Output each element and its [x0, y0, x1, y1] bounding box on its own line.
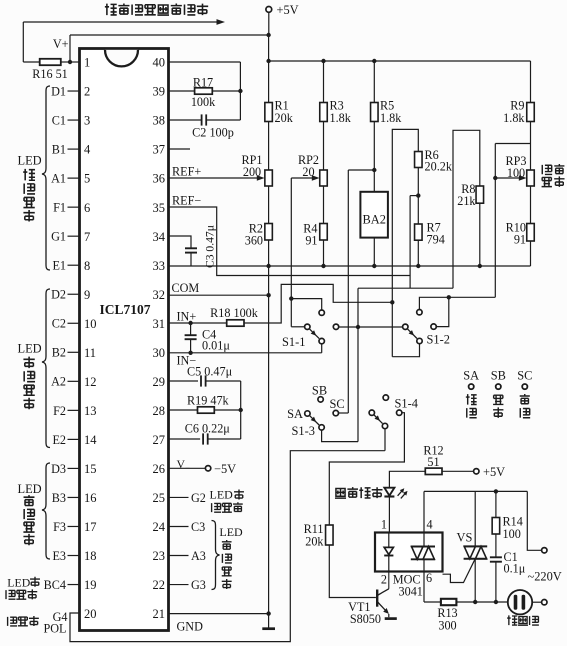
junction bottom rail / C1	[494, 600, 498, 604]
svg-text:1: 1	[381, 518, 387, 532]
wire GND pin21	[169, 614, 269, 634]
svg-text:SB: SB	[312, 384, 327, 398]
svg-text:D2: D2	[51, 288, 66, 302]
svg-text:S1-3: S1-3	[292, 424, 315, 438]
segment output G2 pin 25 stub	[169, 491, 206, 505]
svg-text:20k: 20k	[305, 534, 324, 548]
wire S1-4 right to R11	[329, 413, 404, 525]
junction R17/pin40 column	[238, 89, 242, 93]
triac VS	[457, 530, 488, 558]
junction rail/R7	[416, 264, 420, 268]
wire bottom rail left	[424, 601, 441, 603]
svg-text:200: 200	[243, 165, 261, 179]
svg-text:360: 360	[245, 234, 263, 248]
svg-text:6: 6	[84, 201, 90, 215]
segment output A3 pin 23 stub	[169, 549, 206, 563]
svg-text:B1: B1	[52, 142, 66, 156]
svg-text:LED: LED	[210, 487, 234, 501]
svg-text:6: 6	[426, 571, 432, 585]
brace LED百位显示 left group	[42, 463, 50, 559]
wire bottom rail right	[456, 601, 508, 603]
wire S1-1 bottom to IN-	[321, 344, 323, 353]
terminal 220V lower	[542, 600, 547, 605]
svg-text:2: 2	[84, 85, 90, 99]
svg-text:4: 4	[427, 518, 433, 532]
svg-text:20: 20	[84, 607, 97, 621]
svg-text:REF−: REF−	[172, 194, 201, 208]
segment output G3 pin 22 stub	[169, 578, 206, 592]
svg-text:BA2: BA2	[362, 212, 385, 226]
brace LED百位显示 group	[212, 521, 220, 590]
wire BA2-top branch to SC column	[348, 170, 374, 413]
wire R5 to BA2	[373, 122, 375, 192]
wire SC contact to BA2 column	[339, 412, 349, 414]
svg-text:794: 794	[427, 233, 445, 247]
svg-text:3: 3	[84, 114, 90, 128]
svg-text:SC: SC	[330, 397, 345, 411]
wire RP2 wiper arrow	[291, 175, 319, 327]
svg-text:S1-4: S1-4	[395, 397, 418, 411]
resistor R2	[245, 186, 273, 248]
resistor R5	[371, 61, 403, 125]
label 接共阳数码管阳极	[105, 4, 208, 16]
svg-text:D1: D1	[51, 84, 66, 98]
potentiometer RP2	[298, 122, 327, 187]
brace LED个位显示 group	[42, 86, 50, 270]
label LED十位显示 (G2)	[210, 487, 244, 512]
wire R6 top loop	[392, 129, 418, 356]
segment input D3 pin 15 stub	[51, 462, 79, 476]
wire R6R7 node to REF- riser	[410, 196, 418, 289]
label LED十位显示	[18, 341, 42, 409]
wire VS gate to MOC	[443, 559, 476, 583]
svg-text:37: 37	[153, 143, 166, 157]
svg-text:SA: SA	[463, 368, 479, 382]
wire +5V column to bus	[268, 35, 270, 61]
svg-text:26: 26	[153, 462, 166, 476]
wire pin37 stub	[169, 148, 191, 150]
wire VS MT2 riser	[474, 491, 476, 546]
segment input D2 pin 9 stub	[51, 288, 79, 302]
power +5V terminal	[266, 3, 299, 35]
svg-text:100: 100	[507, 166, 525, 180]
junction rail/R2	[266, 264, 270, 268]
svg-text:19: 19	[84, 578, 97, 592]
svg-text:B3: B3	[52, 491, 66, 505]
svg-text:D3: D3	[51, 462, 66, 476]
junction S1-1-right / riser	[356, 325, 360, 329]
junction GND/ground column	[266, 611, 270, 615]
resistor R4	[303, 186, 327, 266]
potentiometer RP1	[241, 122, 272, 187]
legend contacts SA SB SC	[463, 368, 532, 418]
junction RP3 wiper	[493, 176, 497, 180]
ground symbol main	[262, 614, 275, 629]
segment input C2 pin 10 stub	[52, 317, 80, 331]
svg-text:23: 23	[153, 549, 166, 563]
junction R6/R7 node	[416, 193, 420, 197]
wire MOC pin6 riser	[423, 572, 425, 603]
svg-text:LED: LED	[219, 525, 243, 539]
wire S1-2 bottom to R6 column	[392, 344, 419, 357]
svg-text:ICL7107: ICL7107	[99, 302, 150, 317]
svg-text:REF+: REF+	[172, 165, 201, 179]
svg-text:F3: F3	[53, 520, 66, 534]
svg-text:100k: 100k	[191, 95, 216, 109]
svg-text:E2: E2	[52, 433, 66, 447]
capacitor C4	[185, 323, 231, 353]
wire R12 left to LED column	[389, 471, 425, 487]
svg-text:34: 34	[153, 230, 166, 244]
svg-text:A2: A2	[51, 375, 66, 389]
svg-text:SA: SA	[287, 407, 303, 421]
svg-text:G3: G3	[191, 578, 206, 592]
optocoupler internal LED	[384, 533, 393, 572]
label LED百位显示 left	[18, 482, 42, 545]
wire VS MT1 to bottom rail	[474, 559, 476, 602]
capacitor C6	[169, 422, 241, 445]
svg-text:10: 10	[84, 317, 97, 331]
wire R8 link line y288	[358, 287, 453, 289]
wire pin1 to junction	[70, 61, 80, 63]
svg-text:1: 1	[84, 56, 90, 70]
label 温度设定	[542, 164, 565, 187]
wire R6 to R7	[417, 168, 419, 225]
svg-text:51: 51	[427, 455, 439, 469]
segment input E3 pin 18 stub	[52, 549, 79, 563]
svg-text:F2: F2	[53, 404, 66, 418]
svg-text:25: 25	[153, 491, 166, 505]
capacitor C1	[490, 534, 526, 602]
wire V+ line to +5V column	[70, 35, 269, 62]
switch S1-3	[305, 397, 339, 430]
svg-text:LED: LED	[18, 341, 42, 355]
svg-text:36: 36	[153, 172, 166, 186]
power -5V terminal	[169, 457, 237, 476]
ground symbol VT1 emitter	[385, 617, 397, 620]
wire +5V bus	[269, 60, 531, 62]
svg-text:LED: LED	[18, 154, 42, 168]
wire IN- pin30 to S1-1	[169, 353, 322, 368]
svg-text:4: 4	[84, 143, 91, 157]
wire R18 jog to R6 column	[244, 284, 392, 323]
junction V+ / +5V column	[266, 33, 270, 37]
wire S1-3 bottom link	[322, 430, 358, 441]
svg-text:91: 91	[514, 232, 526, 246]
power +5V terminal right	[474, 465, 506, 479]
svg-text:91: 91	[305, 234, 317, 248]
switch S1-2	[403, 310, 437, 344]
svg-text:39: 39	[153, 85, 166, 99]
label 接负载	[507, 615, 517, 625]
segment input F2 pin 13 stub	[53, 404, 79, 418]
segment input G1 pin 7 stub	[51, 230, 79, 244]
svg-text:R17: R17	[193, 76, 213, 90]
svg-text:9: 9	[84, 288, 90, 302]
resistor R16	[23, 59, 70, 81]
svg-text:8: 8	[84, 259, 90, 273]
switch S1-1	[305, 310, 339, 344]
junction C4 bottom on IN- line	[188, 351, 192, 355]
svg-text:+5V: +5V	[483, 465, 505, 479]
svg-text:13: 13	[84, 404, 97, 418]
svg-text:−5V: −5V	[214, 462, 236, 476]
wire S1-1 top contact feed	[291, 299, 321, 310]
svg-text:S8050: S8050	[350, 612, 381, 626]
svg-text:+5V: +5V	[277, 3, 299, 17]
junction rail/R4	[321, 264, 325, 268]
svg-text:BC4: BC4	[44, 578, 66, 592]
junction rail/BA2	[372, 264, 376, 268]
svg-text:A1: A1	[51, 172, 66, 186]
resistor R1	[265, 61, 294, 125]
svg-text:R16 51: R16 51	[32, 67, 68, 81]
svg-text:33: 33	[153, 259, 166, 273]
wire S1-2 top to RP3 wiper line	[419, 297, 495, 309]
svg-text:1.8k: 1.8k	[330, 111, 352, 125]
segment input E2 pin 14 stub	[52, 433, 79, 447]
svg-text:B2: B2	[52, 346, 66, 360]
resistor R19	[169, 394, 241, 414]
wire S1-4 bottom to POL line	[384, 429, 386, 451]
svg-text:SC: SC	[517, 368, 532, 382]
svg-text:A3: A3	[191, 549, 206, 563]
junction top rail / R14	[494, 489, 498, 493]
capacitor C2	[169, 114, 241, 139]
resistor R18	[210, 306, 259, 326]
capacitor C5	[169, 364, 241, 386]
segment input E1 pin 8 stub	[52, 259, 79, 273]
segment input BC4 pin 19 stub	[44, 578, 80, 592]
svg-text:300: 300	[438, 619, 456, 633]
svg-text:POL: POL	[43, 621, 66, 635]
wire pin40 to right column	[169, 62, 241, 120]
wire top rail to 220V upper terminal	[527, 491, 541, 550]
label G4 POL	[43, 610, 67, 636]
resistor R14	[492, 491, 523, 541]
optocoupler U2 MOC3041 box	[375, 533, 443, 572]
wire top-left riser to arrow line	[22, 22, 24, 62]
svg-text:~220V: ~220V	[528, 570, 562, 584]
svg-text:38: 38	[153, 114, 166, 128]
resistor R13	[437, 599, 457, 633]
svg-text:S1-2: S1-2	[427, 332, 450, 346]
IC left pin numbers 1-20	[84, 56, 97, 622]
junction bottom rail / VS	[473, 600, 477, 604]
junction rail/R8	[478, 264, 482, 268]
svg-text:14: 14	[84, 433, 97, 447]
resistor R12	[423, 443, 473, 474]
wire R11 to VT1 base	[329, 545, 376, 598]
label LED百位显示 vertical	[219, 525, 243, 589]
brace LED十位显示 group	[42, 289, 50, 448]
junction S1-2 top line / right riser	[447, 295, 451, 299]
svg-text:15: 15	[84, 462, 97, 476]
wire ground column COM to GND	[268, 295, 270, 613]
svg-text:21k: 21k	[457, 194, 476, 208]
node V+ junction at pin 1	[68, 60, 72, 64]
segment input F3 pin 17 stub	[53, 520, 79, 534]
wire integrator column	[240, 381, 242, 439]
svg-text:G1: G1	[51, 230, 66, 244]
svg-text:18: 18	[84, 549, 97, 563]
svg-text:2: 2	[381, 573, 387, 587]
wire S1-2 right contact riser	[437, 297, 449, 326]
wire RP3 wiper arrow	[495, 175, 526, 181]
svg-text:C2: C2	[52, 317, 66, 331]
capacitor C3	[169, 225, 217, 268]
led heating indicator 加热指示	[384, 488, 407, 533]
op-amp U1 ICL7107 main IC body	[80, 49, 169, 631]
junction bus/R3	[321, 59, 325, 63]
wire S1-1 right to S1-2 pole	[339, 326, 403, 328]
svg-text:R18 100k: R18 100k	[210, 306, 259, 320]
svg-text:C5 0.47μ: C5 0.47μ	[187, 364, 233, 378]
svg-text:F1: F1	[53, 201, 66, 215]
wire BA2 bottom to rail	[373, 238, 375, 266]
svg-text:C6 0.22μ: C6 0.22μ	[185, 422, 231, 436]
sensor BA2	[360, 192, 388, 238]
wire R9 bottom to RP3	[530, 122, 532, 171]
segment input B2 pin 11 stub	[52, 346, 80, 360]
svg-text:C1: C1	[52, 113, 66, 127]
wire MOC pin4 riser	[423, 491, 425, 532]
svg-text:35: 35	[153, 201, 166, 215]
svg-text:IN+: IN+	[177, 310, 197, 324]
segment input C1 pin 3 stub	[52, 113, 80, 127]
svg-text:17: 17	[84, 520, 97, 534]
junction R19 right	[239, 408, 243, 412]
svg-text:21: 21	[153, 607, 166, 621]
svg-text:1.8k: 1.8k	[503, 111, 525, 125]
svg-text:40: 40	[153, 56, 166, 70]
svg-text:GND: GND	[177, 619, 204, 633]
resistor R9	[503, 98, 534, 125]
optocoupler internal triac	[411, 533, 435, 572]
switch S1-4	[369, 395, 402, 429]
segment input B1 pin 4 stub	[52, 142, 80, 156]
svg-text:R19 47k: R19 47k	[187, 394, 230, 408]
wire ground column rail to COM	[268, 266, 270, 295]
wire R9 tee to RP3 wiper column	[495, 144, 530, 298]
svg-text:11: 11	[84, 346, 96, 360]
svg-text:31: 31	[153, 317, 166, 331]
svg-text:100: 100	[503, 527, 521, 541]
terminal 220V upper	[542, 548, 547, 553]
junction COM/ground column	[266, 293, 270, 297]
resistor R17	[169, 76, 241, 109]
junction C4 top	[188, 321, 192, 325]
svg-text:32: 32	[153, 288, 166, 302]
svg-text:SB: SB	[491, 368, 506, 382]
svg-text:C2 100p: C2 100p	[192, 126, 234, 140]
junction IN+ net on R6 column	[390, 300, 394, 304]
segment input A2 pin 12 stub	[51, 375, 79, 389]
segment input A1 pin 5 stub	[51, 172, 79, 186]
wire output top rail	[424, 490, 527, 492]
label 位显示 (POL row)	[8, 616, 39, 626]
svg-text:0.01μ: 0.01μ	[202, 339, 230, 353]
svg-text:5: 5	[84, 172, 90, 186]
svg-text:27: 27	[153, 433, 166, 447]
label LED个位显示	[18, 154, 42, 222]
segment input D1 pin 2 stub	[51, 84, 79, 98]
wire S1-1 pole feed	[291, 326, 304, 328]
svg-text:LED: LED	[18, 482, 42, 496]
wire riser 358 to y288 line	[357, 288, 359, 441]
svg-text:LED: LED	[7, 575, 30, 589]
transistor VT1 S8050	[377, 572, 389, 618]
resistor R7	[415, 221, 445, 266]
potentiometer RP3	[505, 154, 534, 186]
svg-text:G2: G2	[191, 491, 206, 505]
wire anode arrow line 接共阳数码管阳极	[23, 19, 225, 25]
svg-text:12: 12	[84, 375, 97, 389]
svg-text:7: 7	[84, 230, 90, 244]
svg-text:E1: E1	[52, 259, 66, 273]
svg-text:0.1μ: 0.1μ	[504, 562, 526, 576]
wire G4/POL pin20 route	[70, 451, 385, 642]
svg-text:C3 0.47μ: C3 0.47μ	[204, 225, 217, 268]
svg-text:28: 28	[153, 404, 166, 418]
resistor R6	[415, 148, 453, 174]
wire REF+ pin36 to RP1 wiper	[169, 165, 265, 181]
wire REF- pin35 run	[169, 194, 411, 276]
svg-text:30: 30	[153, 346, 166, 360]
svg-text:22: 22	[153, 578, 166, 592]
svg-text:COM: COM	[172, 281, 200, 295]
svg-text:20.2k: 20.2k	[425, 159, 453, 173]
wire R8 top loop	[453, 130, 480, 288]
svg-text:3041: 3041	[399, 584, 423, 598]
svg-text:V+: V+	[53, 37, 69, 51]
wire analog common rail pin33	[169, 265, 531, 267]
svg-text:E3: E3	[52, 549, 66, 563]
load socket 接负载	[508, 590, 542, 614]
wire bus right end down to R9	[530, 61, 532, 103]
IC right pin numbers 21-40	[153, 56, 166, 622]
junction bus/R5	[372, 59, 376, 63]
wire R2 bottom to rail	[268, 240, 270, 266]
segment input B3 pin 16 stub	[52, 491, 80, 505]
junction bus/R1	[266, 59, 270, 63]
resistor R8	[457, 182, 483, 266]
svg-text:24: 24	[153, 520, 166, 534]
resistor R3	[320, 61, 352, 125]
svg-text:C3: C3	[191, 520, 205, 534]
svg-text:16: 16	[84, 491, 97, 505]
segment input F1 pin 6 stub	[53, 201, 79, 215]
svg-text:VS: VS	[457, 530, 473, 544]
svg-text:20k: 20k	[275, 111, 294, 125]
wire IN+ to R18	[169, 322, 227, 324]
junction BA2 top branch	[372, 168, 376, 172]
svg-text:S1-1: S1-1	[282, 335, 305, 349]
junction RP2 wiper branch to S1-1 top	[289, 296, 293, 300]
svg-text:1.8k: 1.8k	[380, 111, 402, 125]
label MOC 3041	[393, 572, 423, 598]
wire COM pin32	[169, 281, 269, 295]
resistor R11	[304, 522, 333, 548]
label 加热指示	[335, 489, 346, 499]
svg-text:29: 29	[153, 375, 166, 389]
label LED千位显示	[6, 575, 40, 599]
resistor R10	[506, 186, 535, 266]
segment output C3 pin 24 stub	[169, 520, 206, 534]
